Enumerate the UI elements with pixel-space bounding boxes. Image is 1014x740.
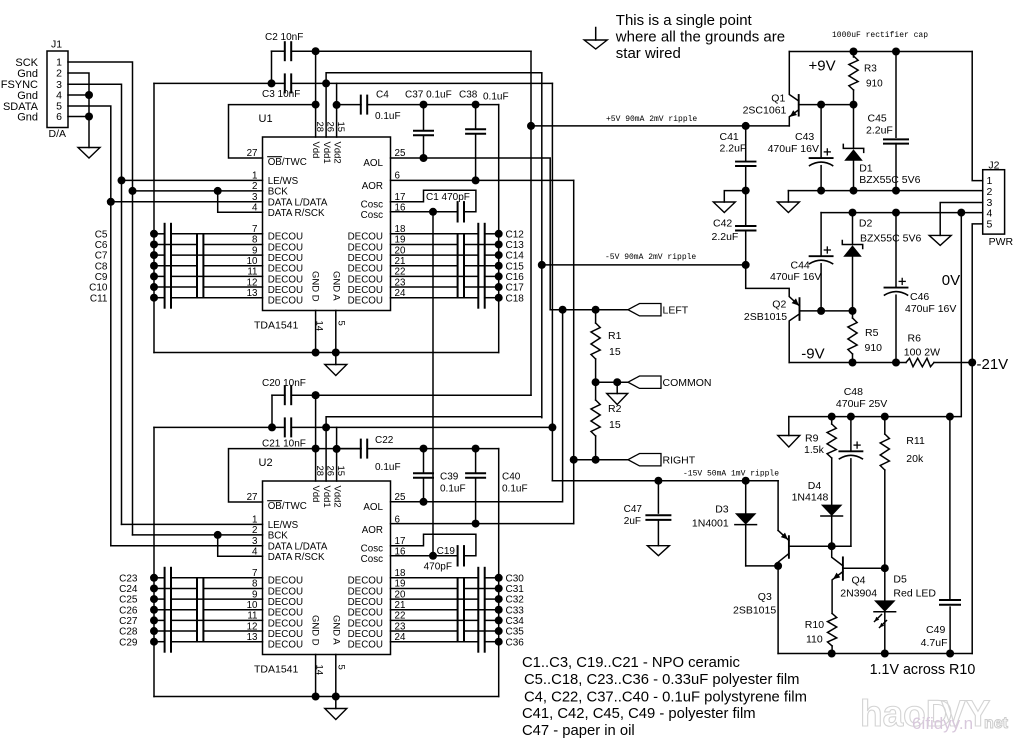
wire U1 pin1 LE/WS [122, 179, 263, 181]
svg-text:DATA L/DATA: DATA L/DATA [268, 541, 328, 552]
svg-text:PWR: PWR [989, 236, 1014, 248]
wire oscillator link U1-U2 [432, 212, 434, 556]
diode D3 1N4001 [692, 481, 757, 566]
svg-text:0.1uF: 0.1uF [483, 92, 509, 103]
transistor Q3 2SB1015 [733, 530, 789, 653]
svg-text:-21V: -21V [977, 356, 1009, 373]
svg-text:where all the grounds are: where all the grounds are [615, 29, 785, 46]
capacitor C48 470uF 25V [832, 417, 863, 547]
svg-text:15: 15 [609, 346, 621, 358]
svg-text:-5V 90mA 2mV ripple: -5V 90mA 2mV ripple [605, 253, 696, 262]
wire J1 pin3 FSYNC [68, 84, 122, 180]
svg-text:0.1uF: 0.1uF [440, 484, 466, 495]
svg-text:C9: C9 [95, 272, 108, 283]
IC U1 TDA1541 box [254, 113, 391, 332]
svg-text:C5..C18, C23..C36 - 0.33uF pol: C5..C18, C23..C36 - 0.33uF polyester fil… [524, 672, 800, 688]
capacitor C43 470uF 16V [768, 105, 833, 191]
wire U1 pin15 Vdd2 riser [336, 83, 338, 137]
svg-text:Cosc: Cosc [361, 544, 383, 555]
svg-text:C10: C10 [89, 283, 108, 294]
wire J1 pin1 SCK [68, 62, 133, 191]
wire U1 pin5 GND A [335, 311, 337, 365]
svg-text:100 2W: 100 2W [904, 347, 940, 359]
wire U1 pin2 BCK [133, 190, 263, 192]
resistor R6 100 2W [904, 333, 972, 367]
wire AOR rail down [573, 180, 575, 523]
svg-text:1000uF rectifier cap: 1000uF rectifier cap [832, 31, 928, 40]
svg-text:4.7uF: 4.7uF [921, 637, 948, 649]
svg-text:DECOU: DECOU [348, 253, 383, 264]
svg-text:470pF: 470pF [424, 562, 452, 573]
transistor Q1 2SC1061 [743, 52, 799, 126]
svg-text:2SB1015: 2SB1015 [733, 605, 776, 617]
wire left decoupling bus U2 [153, 427, 155, 696]
wire U2 pin14 GND D [315, 655, 317, 697]
svg-text:Q1: Q1 [771, 93, 785, 105]
svg-text:DECOU: DECOU [268, 253, 303, 264]
capacitor C5 [95, 224, 263, 244]
svg-text:DECOU: DECOU [268, 285, 303, 296]
svg-text:DATA L/DATA: DATA L/DATA [268, 197, 328, 208]
wire U2 pin15 Vdd2 riser [336, 427, 338, 481]
capacitor C27 [119, 610, 262, 630]
wire U2 Vdd2 rail to C4 [337, 448, 361, 450]
capacitor C21 10nF [154, 418, 552, 449]
text component notes [522, 655, 807, 739]
wire U1 ground bus right [498, 105, 500, 353]
wire Q1 base row [799, 104, 854, 106]
resistor R1 15 [591, 310, 622, 383]
capacitor C30 [391, 568, 525, 588]
capacitor C24 [119, 578, 262, 598]
svg-text:D/A: D/A [49, 128, 67, 140]
capacitor C37 0.1uF [405, 90, 452, 163]
wire U2 pin2 BCK [133, 534, 263, 536]
wire RIGHT output row [574, 459, 628, 461]
wire U2 decoupling ground loop bottom [154, 696, 499, 698]
svg-text:U1: U1 [259, 113, 273, 125]
svg-text:D2: D2 [859, 218, 873, 230]
capacitor C25 [119, 589, 262, 609]
capacitor C39 0.1uF [414, 445, 466, 506]
IC U2 top supply pin labels Vdd Vdd1 Vdd2 pins 28 26 15 [310, 466, 346, 508]
capacitor C35 [391, 621, 525, 641]
wire U1 pin4 DATA R tie to BCK [218, 191, 263, 212]
svg-text:Cosc: Cosc [361, 200, 383, 211]
IC U1 right pin labels [348, 158, 384, 306]
tag LEFT [628, 304, 661, 316]
capacitor C7 [95, 245, 263, 265]
svg-text:1.5k: 1.5k [804, 444, 825, 456]
wire C20 to +5V rail [316, 394, 531, 396]
svg-text:C42: C42 [713, 218, 732, 230]
svg-text:2N3904: 2N3904 [840, 588, 877, 600]
wire -15V supply line [552, 480, 778, 482]
ground U1 analog ground [325, 365, 347, 376]
capacitor C23 [119, 568, 262, 588]
svg-text:DECOU: DECOU [348, 618, 383, 629]
svg-text:5: 5 [987, 218, 993, 230]
svg-text:C36: C36 [506, 637, 525, 648]
wire left decoupling bus U1 [153, 83, 155, 352]
capacitor C1 470pF [391, 190, 476, 221]
capacitor C46 470uF 16V [885, 213, 957, 363]
wire -5V rail [541, 73, 543, 418]
svg-text:Vdd2: Vdd2 [331, 486, 342, 508]
svg-text:C33: C33 [506, 605, 525, 616]
wire -9V line [789, 362, 906, 364]
wire C20 left riser [271, 395, 273, 427]
wire J2 pin3 to star ground [940, 203, 983, 236]
svg-text:C20 10nF: C20 10nF [262, 378, 306, 389]
capacitor C6 [95, 234, 263, 254]
wire LED bias 0V rail [789, 416, 950, 418]
svg-text:C24: C24 [119, 584, 138, 595]
svg-text:20k: 20k [906, 453, 924, 465]
svg-text:2.2uF: 2.2uF [866, 125, 893, 137]
svg-text:C39: C39 [440, 472, 459, 483]
ground J2 pin3 [929, 235, 951, 245]
wire SCK down to U2 [132, 191, 134, 535]
svg-text:LE/WS: LE/WS [268, 176, 299, 187]
svg-text:C49: C49 [926, 624, 945, 636]
wire U2 pin27 OB/TWC [229, 449, 316, 502]
svg-text:5: 5 [335, 665, 346, 670]
wire +5V rail [530, 51, 532, 395]
capacitor C41 2.2uF [720, 126, 756, 195]
svg-text:C8: C8 [95, 261, 108, 272]
capacitor C29 [119, 632, 262, 652]
svg-text:1N4001: 1N4001 [692, 518, 729, 530]
svg-text:RIGHT: RIGHT [663, 455, 696, 467]
svg-text:C47 - paper in oil: C47 - paper in oil [522, 723, 635, 739]
capacitor C2 10nF [265, 32, 316, 60]
svg-text:DECOU: DECOU [348, 586, 383, 597]
ground J1 [78, 148, 100, 159]
text star ground note [615, 12, 785, 62]
wire C2 to +5V rail [316, 50, 531, 52]
capacitor C40 0.1uF [466, 445, 527, 528]
ground C47 [647, 546, 669, 556]
svg-text:J1: J1 [51, 39, 62, 51]
svg-text:AOR: AOR [362, 181, 383, 192]
svg-text:DECOU: DECOU [268, 576, 303, 587]
svg-text:DECOU: DECOU [348, 232, 383, 243]
IC U2 right pin labels [348, 502, 384, 650]
svg-text:TDA1541: TDA1541 [254, 664, 299, 676]
svg-text:BZX55C 5V6: BZX55C 5V6 [860, 233, 921, 245]
svg-text:R10: R10 [805, 619, 824, 631]
svg-text:110: 110 [806, 634, 823, 646]
svg-text:R9: R9 [805, 433, 819, 445]
capacitor C12 [391, 224, 525, 244]
diode D2 BZX55C 5V6 zener [842, 213, 921, 311]
wire U2 pin4 DATA R tie to BCK [218, 535, 263, 556]
svg-text:DECOU: DECOU [268, 608, 303, 619]
svg-text:Gnd: Gnd [17, 68, 38, 80]
wire U2 pin26 Vdd1 riser [326, 417, 542, 481]
capacitor C14 [391, 245, 525, 265]
wire U2 pin28 Vdd riser [315, 395, 317, 481]
svg-text:DECOU: DECOU [348, 296, 383, 307]
svg-text:C30: C30 [506, 573, 525, 584]
capacitor C36 [391, 632, 525, 652]
svg-text:DECOU: DECOU [268, 242, 303, 253]
svg-text:C44: C44 [791, 260, 810, 272]
svg-text:C32: C32 [506, 595, 525, 606]
svg-text:Cosc: Cosc [361, 210, 383, 221]
wire U1 pin27 OB/TWC [229, 105, 316, 158]
svg-text:Red LED: Red LED [893, 588, 936, 600]
svg-text:GND D: GND D [309, 271, 320, 302]
svg-text:C11: C11 [90, 293, 108, 304]
svg-text:COMMON: COMMON [663, 377, 712, 389]
wire +5V supply line [531, 125, 789, 127]
capacitor C16 [391, 266, 525, 286]
svg-text:910: 910 [866, 79, 883, 90]
svg-text:2uF: 2uF [624, 516, 641, 527]
IC U2 left pin labels [268, 501, 328, 651]
capacitor C28 [119, 621, 262, 641]
svg-text:C5: C5 [95, 229, 108, 240]
wire U1 AOL pin25 [391, 158, 551, 310]
svg-text:BZX55C 5V6: BZX55C 5V6 [859, 174, 920, 186]
svg-text:LEFT: LEFT [663, 305, 689, 317]
wire +9V rail [789, 51, 972, 53]
svg-text:GND D: GND D [309, 615, 320, 646]
svg-text:470uF 16V: 470uF 16V [905, 303, 956, 315]
resistor R2 15 [591, 382, 622, 460]
svg-text:DECOU: DECOU [348, 576, 383, 587]
capacitor C33 [391, 600, 525, 620]
wire U2 ground bus right [498, 449, 500, 697]
resistor R9 1.5k [804, 417, 836, 505]
svg-text:Vdd1: Vdd1 [321, 486, 332, 508]
svg-text:2SC1061: 2SC1061 [743, 105, 787, 117]
wire J2 pin1 +9V riser [972, 52, 983, 181]
wire LEFT output row [550, 309, 628, 311]
svg-text:DECOU: DECOU [348, 264, 383, 275]
svg-text:C28: C28 [119, 627, 138, 638]
svg-text:470uF 16V: 470uF 16V [768, 143, 819, 155]
watermark haoDVY.net [860, 693, 1009, 734]
svg-text:net: net [984, 715, 1009, 732]
wire -15V to Q3 emitter [746, 481, 778, 531]
capacitor C9 [95, 266, 263, 286]
svg-text:0.1uF: 0.1uF [375, 111, 401, 122]
wire FSYNC down to U2 [121, 180, 123, 524]
capacitor C34 [391, 610, 525, 630]
ground C41 [713, 191, 745, 213]
resistor R10 110 [805, 613, 837, 653]
wire U2 pin3 DATA L [111, 545, 263, 547]
svg-text:910: 910 [865, 342, 883, 354]
svg-text:This is a single point: This is a single point [616, 12, 753, 29]
wire SDATA down to U2 [110, 202, 112, 546]
capacitor C19 470pF [391, 534, 476, 572]
connector J1 [47, 39, 68, 141]
wire 0V mid rail / J2 pin4 [821, 212, 983, 214]
capacitor C31 [391, 578, 525, 598]
capacitor C47 2uF paper in oil [624, 477, 671, 546]
svg-text:GND A: GND A [331, 271, 342, 301]
svg-text:AOL: AOL [363, 502, 383, 513]
diode D1 BZX55C 5V6 zener [843, 105, 920, 191]
svg-text:C29: C29 [119, 637, 138, 648]
svg-text:2SB1015: 2SB1015 [744, 311, 787, 323]
IC U2 pin numbers [247, 492, 406, 643]
resistor R5 910 [848, 311, 882, 363]
svg-text:2: 2 [56, 68, 62, 80]
svg-text:C13: C13 [506, 240, 525, 251]
svg-text:C40: C40 [502, 472, 521, 483]
wire U1 Vdd2 rail to C4 [337, 104, 361, 106]
svg-text:DECOU: DECOU [348, 242, 383, 253]
capacitor C32 [391, 589, 525, 609]
svg-text:BCK: BCK [268, 530, 289, 541]
svg-text:OB/TWC: OB/TWC [268, 157, 307, 168]
svg-text:C35: C35 [506, 627, 525, 638]
diode D4 1N4148 [792, 480, 843, 546]
svg-text:C37 0.1uF: C37 0.1uF [405, 90, 452, 101]
svg-text:DECOU: DECOU [348, 285, 383, 296]
svg-text:Q2: Q2 [772, 299, 786, 311]
wire U2 pin1 LE/WS [122, 523, 263, 525]
tag RIGHT [628, 454, 661, 466]
wire Q3 base row [789, 545, 851, 547]
ground COMMON star point [616, 382, 618, 393]
svg-text:AOL: AOL [363, 158, 383, 169]
resistor R3 910 [849, 52, 883, 105]
svg-text:6ifidyy.n: 6ifidyy.n [912, 714, 973, 733]
svg-text:R2: R2 [608, 403, 622, 415]
svg-text:Vdd: Vdd [310, 486, 321, 503]
svg-text:C34: C34 [506, 616, 525, 627]
wire J1 pin5 SDATA [68, 106, 111, 202]
svg-text:Vdd: Vdd [310, 142, 321, 159]
wire U1 decoupling ground loop bottom [154, 352, 499, 354]
capacitor C22 0.1uF [361, 435, 499, 473]
svg-text:5: 5 [335, 321, 346, 326]
capacitor C8 [95, 256, 263, 276]
svg-text:LE/WS: LE/WS [268, 520, 299, 531]
svg-text:TDA1541: TDA1541 [254, 320, 299, 332]
svg-text:DECOU: DECOU [268, 296, 303, 307]
wire J2 pin5 -21V drop [972, 224, 983, 654]
connector J2 [983, 160, 1014, 248]
capacitor C11 [90, 288, 263, 308]
svg-text:D4: D4 [808, 480, 822, 492]
svg-text:+5V 90mA 2mV ripple: +5V 90mA 2mV ripple [606, 115, 697, 124]
J1 labels [1, 57, 39, 124]
svg-text:-15V 50mA 1mV ripple: -15V 50mA 1mV ripple [683, 470, 779, 479]
ground U2 analog ground [325, 709, 347, 720]
svg-text:R6: R6 [908, 333, 922, 345]
svg-text:DECOU: DECOU [348, 640, 383, 651]
svg-text:C4, C22, C37..C40 - 0.1uF poly: C4, C22, C37..C40 - 0.1uF polystyrene fi… [524, 690, 807, 706]
svg-text:470uF 25V: 470uF 25V [836, 398, 887, 410]
capacitor C45 2.2uF [866, 52, 908, 191]
svg-text:C43: C43 [795, 131, 814, 143]
svg-text:Vdd2: Vdd2 [331, 142, 342, 164]
svg-text:DECOU: DECOU [348, 629, 383, 640]
svg-text:C22: C22 [375, 435, 394, 446]
capacitor C20 10nF [262, 378, 316, 404]
svg-text:BCK: BCK [268, 186, 289, 197]
svg-text:DECOU: DECOU [268, 629, 303, 640]
wire U1 pin3 DATA L [111, 201, 263, 203]
capacitor C42 2.2uF [712, 191, 756, 265]
transistor Q4 2N3904 [832, 546, 878, 613]
svg-text:DECOU: DECOU [268, 618, 303, 629]
svg-text:Gnd: Gnd [17, 111, 38, 123]
svg-text:C15: C15 [506, 261, 525, 272]
wire U2 pin5 GND A [335, 655, 337, 709]
tag COMMON [628, 376, 661, 388]
svg-text:D5: D5 [893, 574, 907, 586]
svg-text:C47: C47 [624, 504, 643, 515]
capacitor C10 [89, 277, 262, 297]
svg-text:1N4148: 1N4148 [792, 492, 829, 504]
svg-text:OB/TWC: OB/TWC [268, 501, 307, 512]
svg-text:DECOU: DECOU [348, 597, 383, 608]
capacitor C18 [391, 288, 525, 308]
svg-text:C19: C19 [437, 546, 456, 557]
svg-text:0.1uF: 0.1uF [375, 462, 401, 473]
svg-text:DATA R/SCK: DATA R/SCK [268, 552, 325, 563]
wire U1 AOR pin6 [391, 179, 574, 181]
svg-text:C4: C4 [376, 90, 389, 101]
svg-text:R3: R3 [864, 64, 877, 75]
svg-text:C41, C42, C45, C49 - polyester: C41, C42, C45, C49 - polyester film [522, 706, 756, 722]
svg-text:R5: R5 [865, 327, 879, 339]
wire U2 pin27 rail segment [316, 448, 361, 450]
svg-text:C1 470pF: C1 470pF [426, 192, 470, 203]
IC U1 bottom ground pin labels GND D GND A pins 14 5 [309, 271, 346, 331]
svg-text:DATA R/SCK: DATA R/SCK [268, 208, 325, 219]
capacitor C4 0.1uF [361, 90, 499, 123]
resistor R11 20k [880, 417, 925, 569]
wire Q4 base to LED column [843, 567, 885, 569]
capacitor C3 10nF [154, 74, 552, 100]
svg-text:C18: C18 [506, 293, 525, 304]
wire -15V rail [551, 83, 553, 480]
svg-text:DECOU: DECOU [268, 264, 303, 275]
svg-text:6: 6 [56, 111, 62, 123]
svg-text:C31: C31 [506, 584, 525, 595]
capacitor C13 [391, 234, 525, 254]
svg-text:-9V: -9V [801, 346, 824, 363]
IC U2 TDA1541 box [254, 457, 391, 676]
wire J1 ground bus [68, 73, 89, 148]
wire 0V line [788, 190, 982, 192]
svg-text:C27: C27 [119, 616, 138, 627]
svg-text:C38: C38 [459, 90, 478, 101]
svg-text:Cosc: Cosc [361, 554, 383, 565]
svg-text:DECOU: DECOU [268, 274, 303, 285]
svg-text:Vdd1: Vdd1 [321, 142, 332, 164]
svg-text:DECOU: DECOU [268, 597, 303, 608]
svg-text:R11: R11 [906, 435, 925, 447]
wire U2 AOR pin6 [391, 523, 574, 525]
svg-text:C25: C25 [119, 595, 138, 606]
ground 0V line [777, 191, 799, 213]
svg-text:0V: 0V [942, 272, 960, 289]
svg-text:C48: C48 [844, 386, 863, 398]
wire 0V drop to LED bias rail [950, 213, 961, 417]
svg-text:Q4: Q4 [852, 575, 866, 587]
ground LED bias rail [778, 417, 800, 447]
